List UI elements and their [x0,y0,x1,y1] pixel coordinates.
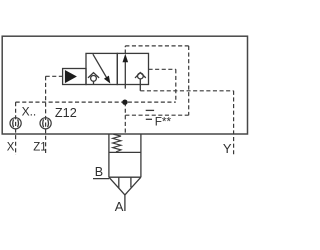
port B line [93,178,109,180]
F** tick mark upper [146,109,154,111]
X riser line [15,102,17,155]
svg-text:F**: F** [155,114,172,128]
check valve side line [149,68,176,70]
pilot valve left square [86,53,117,84]
port A line [124,195,126,211]
Y riser line [233,91,235,156]
top pilot line to right [125,45,188,47]
vertical line V1 [175,69,177,102]
svg-text:X..: X.. [22,105,37,119]
frame border [2,36,247,134]
svg-text:B: B [95,165,103,179]
check ball with seat (left square) [88,73,99,85]
F line horizontal [125,114,188,116]
svg-text:Y: Y [223,141,232,156]
check valve drop stub [139,85,141,91]
svg-text:A: A [115,199,124,214]
junction node dot [122,100,127,105]
svg-text:Z1: Z1 [33,142,46,154]
check valve ball with seat (right square) [135,73,146,85]
valve top stub line [124,50,126,54]
flow path diagonal arrow (left square) [93,54,110,83]
orifice Z12 [40,118,51,129]
svg-text:X: X [7,142,15,154]
pilot valve right square [117,53,148,84]
junction down line to spring chamber [124,102,126,134]
F** tick mark lower (minus) [146,118,152,120]
pilot rail line X to junction to V1 [16,101,176,103]
svg-text:Z12: Z12 [55,106,77,120]
main cartridge valve body [109,134,141,195]
right vertical pilot line [188,46,190,115]
Z12 riser line [45,76,47,155]
flow path up arrow (right square) [123,54,129,89]
pilot feed line into actuator [46,75,63,77]
spring [113,134,121,152]
drain line to Y [140,90,233,92]
hydraulic pilot actuator box [63,69,86,85]
orifice X.. [10,118,21,129]
